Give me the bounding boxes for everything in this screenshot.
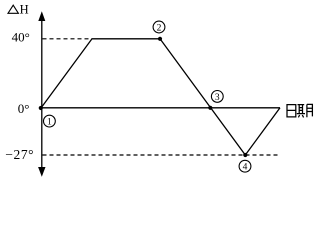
node 2 dot — [158, 37, 162, 41]
circled 2 — [153, 21, 165, 33]
svg-text:1: 1 — [47, 118, 52, 128]
circled 1 — [44, 115, 56, 127]
svg-text:H: H — [20, 3, 29, 17]
wire polyline — [41, 39, 280, 155]
svg-text:3: 3 — [215, 93, 220, 103]
svg-text:2: 2 — [157, 23, 162, 33]
circled 3 — [211, 91, 223, 103]
circled 4 — [239, 160, 251, 172]
svg-text:40°: 40° — [12, 30, 30, 45]
dashed line 40deg — [43, 38, 93, 40]
node 4 dot — [243, 153, 247, 157]
qi right (moon) — [307, 104, 313, 117]
ri — [287, 105, 296, 117]
qi left (qi2) — [297, 105, 305, 118]
y-axis — [38, 11, 45, 177]
dashed line -27deg — [43, 154, 279, 156]
x-axis — [41, 107, 280, 109]
label riqi (date) CJK drawn — [287, 104, 312, 117]
svg-text:4: 4 — [243, 163, 248, 173]
node origin dot — [39, 106, 43, 110]
svg-text:0°: 0° — [18, 101, 30, 116]
label deltaH — [8, 3, 29, 17]
node 3 dot — [208, 106, 212, 110]
svg-text:−27°: −27° — [5, 147, 34, 162]
